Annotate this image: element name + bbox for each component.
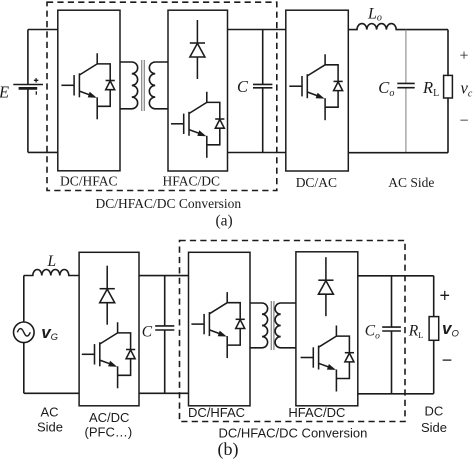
svg-text:+: + [460, 48, 469, 65]
battery E (source) [13, 30, 43, 153]
svg-text:−: − [460, 113, 469, 130]
svg-text:DC: DC [425, 404, 444, 419]
AC source vG [13, 276, 34, 394]
svg-text:(b): (b) [218, 439, 239, 460]
diode D1 [190, 20, 205, 79]
svg-text:DC/HFAC: DC/HFAC [60, 174, 118, 189]
svg-text:−: − [442, 350, 453, 370]
svg-text:RL: RL [408, 323, 424, 341]
svg-text:vG: vG [41, 323, 58, 343]
box DC/AC (a) [286, 10, 349, 171]
dashed DC/HFAC/DC conversion boundary (b) [180, 241, 406, 422]
transformer T1 core [142, 60, 145, 111]
svg-text:vc: vc [461, 78, 473, 99]
wire top-left rail (a) [28, 29, 58, 31]
resistor RL (b) [429, 317, 439, 341]
IGBT Q2 [171, 92, 224, 158]
svg-text:DC/HFAC: DC/HFAC [188, 405, 245, 420]
diode D2 [100, 266, 115, 325]
dashed DC/HFAC/DC conversion boundary (a) [47, 2, 277, 190]
wire bottom mid rail (b) [139, 392, 189, 394]
svg-text:AC/DC: AC/DC [89, 410, 129, 425]
svg-text:C: C [142, 324, 153, 341]
transformer T2 core [271, 301, 274, 350]
box DC/HFAC (b) [189, 252, 251, 405]
wire bottom-left rail (a) [28, 151, 58, 153]
capacitor Co (a) [397, 30, 414, 153]
IGBT Q6 [301, 326, 354, 392]
svg-text:E: E [0, 83, 9, 102]
inductor Lo wire (a) [348, 24, 448, 30]
svg-text:Side: Side [421, 420, 447, 435]
svg-text:DC/HFAC/DC Conversion: DC/HFAC/DC Conversion [219, 426, 368, 441]
svg-text:Lo: Lo [367, 6, 382, 24]
svg-text:DC/HFAC/DC Conversion: DC/HFAC/DC Conversion [96, 196, 242, 211]
svg-text:+: + [440, 286, 451, 306]
capacitor Co (b) [382, 276, 401, 394]
capacitor C (a) [253, 30, 272, 153]
wire top mid rail (b) [139, 275, 189, 277]
svg-text:Side: Side [37, 420, 63, 435]
wire top right rail (b) [358, 275, 434, 277]
transformer T2 primary [250, 303, 268, 348]
svg-text:vO: vO [442, 319, 459, 340]
box HFAC/DC (a) [168, 10, 228, 171]
box HFAC/DC (b) [296, 252, 358, 406]
wire top mid rail (a) [228, 29, 286, 31]
box DC/HFAC (a) [58, 10, 120, 171]
transformer T1 secondary [149, 62, 168, 109]
svg-text:L: L [47, 253, 57, 270]
wire bottom-left rail (b) [24, 392, 79, 394]
IGBT Q3 [289, 54, 342, 120]
svg-text:Co: Co [365, 323, 380, 342]
svg-text:Co: Co [378, 78, 394, 99]
IGBT Q5 [191, 292, 244, 358]
svg-text:RL: RL [422, 78, 439, 99]
svg-text:DC/AC: DC/AC [296, 175, 337, 190]
wire right vertical (a) [447, 30, 449, 153]
IGBT Q1 [61, 53, 114, 119]
diode D3 [318, 257, 333, 316]
resistor RL (a) [444, 75, 453, 98]
svg-text:(a): (a) [216, 213, 233, 230]
svg-text:(PFC…): (PFC…) [85, 425, 133, 440]
wire bottom right rail (b) [358, 393, 434, 395]
box AC/DC (b) [79, 252, 139, 405]
svg-text:AC Side: AC Side [388, 175, 434, 190]
svg-text:C: C [237, 77, 249, 96]
wire right vertical (b) [433, 276, 435, 394]
IGBT Q4 [82, 322, 135, 388]
svg-text:AC: AC [41, 405, 59, 420]
inductor L (b) [24, 270, 79, 276]
transformer T1 primary [120, 62, 138, 109]
transformer T2 secondary [275, 303, 296, 348]
capacitor C (b) [155, 276, 174, 394]
svg-text:HFAC/DC: HFAC/DC [163, 174, 221, 189]
wire bottom mid rail (a) [228, 152, 286, 154]
wire bottom right rail (a) [348, 152, 448, 154]
svg-text:HFAC/DC: HFAC/DC [288, 405, 345, 420]
